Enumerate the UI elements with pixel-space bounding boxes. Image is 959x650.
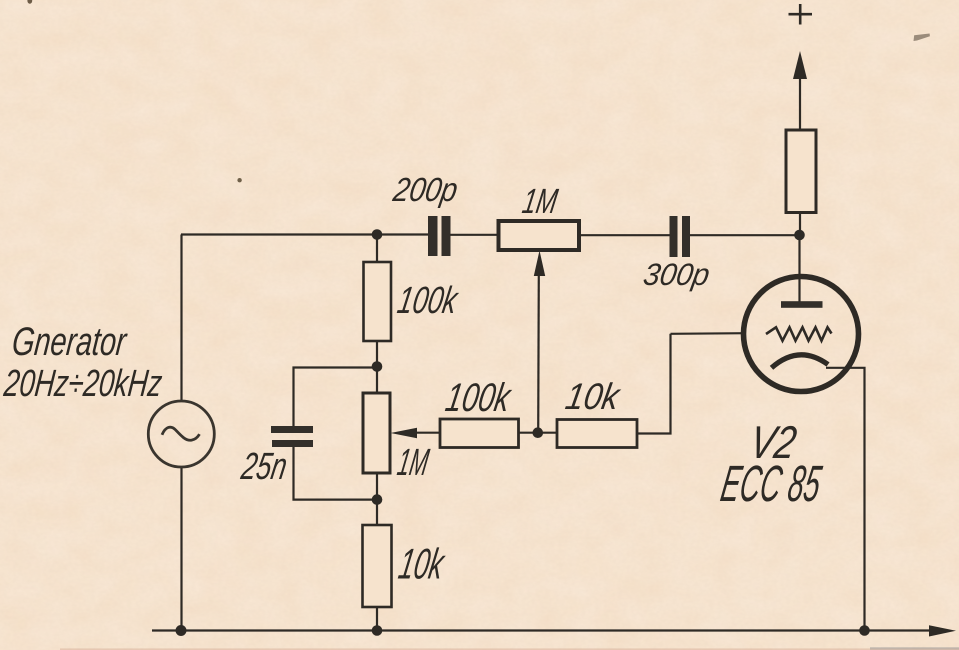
capacitor 25n plates	[271, 426, 313, 433]
wire plate resistor to node B	[799, 213, 801, 236]
wire 1M to 300p	[579, 234, 670, 236]
svg-text:100k: 100k	[394, 280, 462, 322]
wire 10k to rail	[376, 607, 378, 631]
wire wiper vertical	[537, 274, 540, 433]
wire generator-top vertical	[180, 235, 182, 402]
arrow supply up	[793, 51, 807, 79]
wire node E to 10k	[376, 500, 378, 525]
resistor 10k vertical	[363, 525, 392, 607]
svg-text:200p: 200p	[390, 171, 461, 208]
wire 300p to plate node	[690, 234, 800, 236]
arrow wiper up	[534, 251, 545, 277]
potentiometer 1M vertical body	[363, 393, 390, 473]
wire 100k to 10k	[519, 432, 558, 434]
wire grid horizontal	[671, 332, 747, 335]
svg-text:25n: 25n	[238, 446, 291, 488]
capacitor 200p plates	[428, 216, 438, 256]
rail junction dot cathode	[859, 625, 870, 636]
node D junction dot	[372, 361, 383, 372]
speck top-left	[27, 0, 32, 4]
svg-text:ECC 85: ECC 85	[717, 454, 826, 512]
wire node D to pot 1M	[376, 367, 378, 393]
tube cathode arc	[772, 355, 829, 368]
generator sine wave	[162, 427, 200, 440]
wire 25n top branch	[294, 368, 378, 427]
bottom paper edge line	[60, 648, 959, 650]
svg-text:300p: 300p	[641, 258, 713, 293]
wire pot arrow to 100k	[415, 432, 440, 434]
speck mid	[237, 178, 241, 182]
wire main top horizontal left	[181, 233, 428, 235]
node E junction dot	[372, 494, 383, 505]
arrow pot left	[391, 428, 418, 438]
node C wiper junction dot	[533, 427, 544, 438]
tube V2 envelope	[744, 277, 859, 392]
wire 100k to node D	[376, 341, 378, 367]
rail junction dot generator	[176, 625, 187, 636]
node A junction dot	[372, 229, 383, 240]
wire 200p to 1M	[451, 234, 499, 236]
resistor plate (anode load)	[786, 130, 816, 213]
wire bottom rail	[152, 629, 930, 631]
wire 10k to grid corner	[637, 334, 671, 434]
generator G1 circle	[148, 401, 214, 467]
wire cathode out	[826, 368, 865, 631]
wire pot 1M to node E	[376, 473, 378, 500]
resistor 100k vertical	[364, 262, 392, 341]
wire 25n bottom branch	[294, 447, 378, 500]
capacitor 300p plates	[670, 216, 678, 257]
tube grid zigzag	[766, 327, 832, 340]
svg-text:10k: 10k	[563, 376, 625, 417]
svg-text:20Hz÷20kHz: 20Hz÷20kHz	[1, 363, 164, 405]
potentiometer 1M horizontal body	[499, 221, 580, 250]
resistor 100k horizontal	[440, 419, 519, 448]
wire node A to 100k	[376, 235, 378, 262]
node B plate junction dot	[794, 230, 805, 241]
resistor 10k horizontal	[557, 420, 637, 448]
svg-text:100k: 100k	[442, 376, 515, 420]
wire generator-bottom vertical	[180, 467, 182, 631]
wire plate resistor to supply arrow	[799, 76, 801, 130]
plus supply terminal	[789, 4, 813, 25]
wire plate node to anode	[798, 235, 800, 302]
gray dash top-right	[914, 34, 930, 42]
svg-text:Gnerator: Gnerator	[10, 320, 129, 365]
rail junction dot 10k	[372, 625, 383, 636]
tube anode bar	[781, 301, 823, 308]
arrow rail right	[929, 625, 956, 636]
